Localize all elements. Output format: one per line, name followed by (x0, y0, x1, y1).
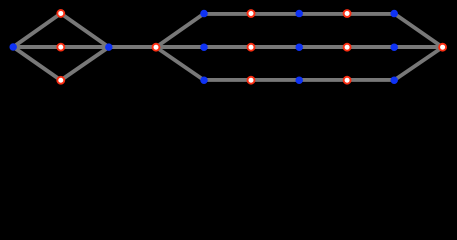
node v15 (red ring vertex, white center) (343, 43, 352, 52)
wire edge v7-v8 (204, 12, 251, 16)
wire edge v3-v5 (61, 45, 109, 49)
node v16 (blue filled vertex) (390, 43, 398, 51)
wire edge v19-v20 (299, 78, 347, 82)
node v9 (blue filled vertex) (295, 10, 303, 17)
wire edge v12-v13 (204, 45, 251, 49)
node v10 (red ring vertex, white center) (343, 9, 352, 18)
node v19 (blue filled vertex) (295, 76, 303, 84)
node v1 (blue filled vertex) (9, 43, 17, 51)
node v11 (blue filled vertex) (390, 10, 398, 17)
node v17 (blue filled vertex) (200, 76, 208, 84)
node v22 (red ring vertex, white center) (438, 43, 447, 52)
wire edge v5-v6 (109, 45, 156, 49)
node v20 (red ring vertex, white center) (343, 76, 352, 85)
wire edge v8-v9 (251, 12, 299, 16)
node v21 (blue filled vertex) (390, 76, 398, 84)
wire edge v6-v17 (156, 47, 204, 80)
wire edge v10-v11 (347, 12, 394, 16)
wire edge v9-v10 (299, 12, 347, 16)
wire edge v11-v22 (394, 14, 442, 48)
node v18 (red ring vertex, white center) (247, 76, 256, 85)
wire edge v20-v21 (347, 78, 394, 82)
node v2 (red ring vertex, white center) (56, 9, 65, 18)
wire edge v16-v22 (394, 45, 442, 49)
node v8 (red ring vertex, white center) (247, 9, 256, 18)
wire edge v17-v18 (204, 78, 251, 82)
node v5 (blue filled vertex) (105, 43, 113, 51)
wire edge v6-v12 (156, 45, 204, 49)
wire edge v21-v22 (394, 47, 442, 80)
wire edge v1-v4 (13, 47, 61, 80)
node v3 (red ring vertex, white center) (56, 43, 65, 52)
wire edge v1-v2 (13, 13, 61, 47)
node v7 (blue filled vertex) (200, 10, 208, 17)
wire edge v18-v19 (251, 78, 299, 82)
node v13 (red ring vertex, white center) (247, 43, 256, 52)
wire edge v1-v3 (13, 45, 61, 49)
wire edge v14-v15 (299, 45, 347, 49)
wire edge v2-v5 (61, 13, 109, 47)
wire edge v4-v5 (61, 47, 109, 80)
wire edge v15-v16 (347, 45, 394, 49)
node v6 (red ring vertex, white center) (152, 43, 161, 52)
node v14 (blue filled vertex) (295, 43, 303, 51)
wire edge v13-v14 (251, 45, 299, 49)
node v12 (blue filled vertex) (200, 43, 208, 51)
node v4 (red ring vertex, white center) (56, 76, 65, 85)
wire edge v6-v7 (156, 14, 204, 48)
